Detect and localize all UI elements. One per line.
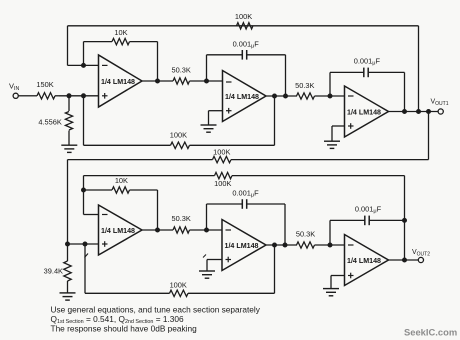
svg-text:0.001μF: 0.001μF [354,56,381,66]
resistor R13 50.3K section 2 [172,214,191,233]
svg-text:50.3K: 50.3K [172,66,191,75]
ground at U3 + input [324,141,340,148]
ground at R9 [60,293,76,300]
wire down to VOUT2 node [404,176,406,260]
svg-text:1/4 LM148: 1/4 LM148 [101,228,135,235]
svg-text:The response should have 0dB p: The response should have 0dB peaking [51,323,198,333]
op-amp U6 (1/4 LM148) [345,235,389,286]
wire up from - to 10K loop [83,176,85,215]
node A junction [67,94,71,98]
svg-text:1/4 LM148: 1/4 LM148 [225,94,259,101]
svg-text:4.556K: 4.556K [38,118,61,127]
op-amp U2 (1/4 LM148) [223,71,267,122]
junction C2 at U3 output [403,110,407,114]
op-amp U4 (1/4 LM148) [99,205,143,255]
svg-text:100K: 100K [213,147,230,156]
svg-text:0.001μF: 0.001μF [232,188,259,198]
junction bottom feedback at U5 output [273,243,277,247]
node B junction [82,94,86,98]
svg-text:150K: 150K [36,80,53,89]
junction at 39.4K node [66,242,70,246]
junction section2 tap at VOUT1 [427,110,431,114]
junction C1 tap at U2 - input [205,79,209,83]
junction 10K loop at U1 output [156,79,160,83]
svg-text:1/4 LM148: 1/4 LM148 [347,110,381,117]
wire U3 output to VOUT1 [389,111,439,113]
junction C1 at U2 output [284,94,288,98]
resistor R6 50.3K second [295,81,314,99]
junction C3 at U5 output [283,243,287,247]
wire U3 + input to ground [332,126,345,141]
wire R1 to U1 + input [59,95,99,97]
stray scan mark near U5 [203,255,206,258]
svg-text:0.001μF: 0.001μF [233,39,260,49]
svg-text:100K: 100K [214,179,231,188]
svg-text:SeekIC.com: SeekIC.com [404,326,457,337]
resistor R5 50.3K [172,66,191,85]
resistor R4 10K feedback U1 [84,28,158,81]
stray scan mark near U4 [85,254,89,258]
resistor R14 50.3K fourth [296,229,315,248]
wire R5 to U2 - input [190,80,223,82]
wire VOUT1 down to section 2 input line [428,112,430,160]
wire U6 output to VOUT2 [389,259,419,261]
junction node D [83,242,87,246]
op-amp U5 (1/4 LM148) [222,220,266,271]
junction at U1 - input loop [82,63,86,67]
svg-text:100K: 100K [170,130,187,139]
junction feedback at VOUT2 [403,258,407,262]
wire VIN to R1 [18,95,29,97]
wire top feedback line [68,25,419,27]
wire U5 + input to ground [207,260,222,271]
ground at R2 [61,145,77,152]
svg-text:1/4 LM148: 1/4 LM148 [225,243,259,250]
svg-text:1/4 LM148: 1/4 LM148 [347,258,381,265]
svg-text:50.3K: 50.3K [296,229,315,238]
resistor R3 100K top feedback [235,12,253,29]
wire U5 output [266,244,297,246]
svg-text:10K: 10K [114,28,127,37]
ground at U6 + input [323,289,339,296]
wire U6 + input to ground [331,276,345,289]
resistor R10 100K bottom feedback [85,244,275,297]
wire U2 + input to ground [209,111,223,125]
svg-text:10K: 10K [115,176,128,185]
svg-text:39.4K: 39.4K [44,267,63,276]
wire down left side to U4 + input [67,160,69,244]
resistor R11 10K feedback U4 [84,176,158,230]
wire R14 to U6 - input [315,244,345,246]
op-amp U3 (1/4 LM148) [345,86,389,137]
junction feedback tap at U2 output [273,94,277,98]
junction C3 tap at U5 - input [205,228,209,232]
resistor R12 100K section 2 top feedback [84,172,405,188]
wire U1 - input line [68,64,99,66]
svg-text:100K: 100K [170,280,187,289]
wire top line down to VOUT1 node [418,26,420,112]
ground at U5 + input [199,271,215,278]
resistor R7 100K feedback to node B [84,96,275,149]
resistor R2 4.556K [38,96,72,145]
wire R6 to U3 - input [315,95,345,97]
ground at U2 + input [201,125,217,132]
wire U1 output [142,80,173,82]
resistor R1 150K [29,80,59,99]
node VOUT2 output terminal [412,249,430,263]
wire U2 output [266,95,297,97]
wire U4 - input line [84,214,99,216]
capacitor C4 0.001uF feedback U6 [330,205,405,245]
wire node B down to 100K feedback line [83,96,85,146]
resistor R8 100K section 2 input [68,147,429,162]
svg-text:0.001μF: 0.001μF [355,205,382,215]
node VIN input terminal [9,82,19,99]
capacitor C2 0.001uF feedback U3 [330,56,405,111]
resistor R9 39.4K [44,244,72,293]
wire U4 + input line [68,243,99,245]
junction C2 tap at U3 - input [328,94,332,98]
junction 10K loop at U4 output [156,228,160,232]
svg-text:1/4 LM148: 1/4 LM148 [101,79,135,86]
wire U4 output [142,229,173,231]
junction 10K loop corner [82,188,86,192]
capacitor C3 0.001uF feedback U5 [207,188,286,245]
node VOUT1 output terminal [431,99,449,115]
svg-text:50.3K: 50.3K [295,81,314,90]
junction C4 line crossing [403,218,407,222]
junction top feedback at VOUT1 [417,110,421,114]
wire R13 to U5 - input [190,229,223,231]
wire up-left to top 100K line [67,26,69,66]
svg-text:100K: 100K [235,12,252,21]
op-amp U1 (1/4 LM148) [99,55,143,107]
svg-text:50.3K: 50.3K [172,214,191,223]
junction C4 tap at U6 - input [328,243,332,247]
capacitor C1 0.001uF feedback U2 [207,39,286,96]
